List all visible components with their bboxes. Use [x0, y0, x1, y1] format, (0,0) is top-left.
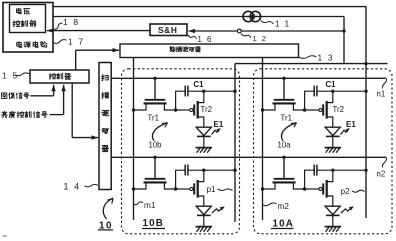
wire: controller to data driver (arrow into data driver left edge) — [76, 49, 119, 51]
junction: storage node on power rail, cell 3 — [364, 90, 367, 93]
svg-text:S&H: S&H — [158, 25, 177, 35]
label: m1 leader — [134, 202, 144, 205]
svg-text:1 7: 1 7 — [68, 37, 85, 47]
junction: Tr2 drain tap, cell 2 — [202, 169, 205, 172]
junction: source on data line, cell 1 — [132, 108, 135, 111]
svg-text:n1: n1 — [377, 90, 386, 99]
junction: supply rail and right vertical — [364, 62, 367, 65]
ground, cell 3 — [325, 147, 341, 149]
transistor Tr2 (drive) cell 1 — [176, 109, 190, 111]
svg-text:Tr1: Tr1 — [281, 114, 292, 123]
label: 亮度控制信号 (brightness control signal) — [2, 111, 7, 117]
transistor p-TFT (drive) cell 4 — [305, 188, 319, 190]
wire: controller to scan driver (arrow into scan driver left edge) — [71, 83, 73, 138]
junction: source on data line, cell 4 — [261, 187, 264, 190]
pointer arrow for 10 — [103, 198, 113, 219]
node 12 (open circle tap) — [237, 29, 241, 33]
junction: storage node on power rail, cell 1 — [233, 90, 236, 93]
block: voltage control unit (inner box) — [10, 5, 46, 33]
junction: storage node on power rail, cell 2 — [233, 169, 236, 172]
wire: right vertical drop of line A — [365, 6, 367, 63]
label: 17 leader — [54, 40, 67, 44]
wire: brightness control signal arrow into controller — [50, 114, 64, 116]
transistor m-TFT (switch) cell 2 — [154, 157, 156, 179]
transistor p-TFT (drive) cell 2 — [176, 188, 190, 190]
junction: source on data line, cell 3 — [261, 108, 264, 111]
svg-text:1 1: 1 1 — [275, 20, 291, 29]
LED E1 cell 1 — [196, 127, 211, 135]
wire: scan line n2 — [111, 156, 386, 158]
transistor Tr1 (switch) cell 3 — [283, 78, 285, 100]
svg-text:Tr2: Tr2 — [333, 105, 344, 114]
wire: data line m1 (column 1) — [133, 58, 135, 220]
label: 数据驱动器 (data driver) — [170, 47, 175, 52]
wire: top supply line A from power box to right side — [53, 6, 366, 8]
label: 11 leader — [261, 20, 274, 23]
svg-text:1 2: 1 2 — [253, 34, 268, 43]
junction: storage node on power rail, cell 4 — [364, 169, 367, 172]
wire: sampled line from tap into S&H (arrow into S&H right edge) — [189, 30, 345, 32]
svg-text:m1: m1 — [144, 201, 156, 210]
junction: line B meets S&H line — [342, 29, 345, 32]
ground, cell 4 — [325, 226, 341, 228]
transistor Tr2 (drive) cell 3 — [305, 109, 319, 111]
label: m2 leader — [263, 203, 277, 206]
svg-text:C1: C1 — [326, 80, 337, 89]
svg-text:Tr1: Tr1 — [148, 114, 159, 123]
label: 12 leader — [241, 33, 251, 37]
label: 13 leader — [299, 56, 317, 59]
junction: Tr2 drain tap, cell 3 — [331, 90, 334, 93]
ground, cell 1 — [196, 147, 212, 149]
scan noise mark bottom left — [3, 235, 7, 237]
capacitor C1 cell 3 — [313, 86, 315, 97]
svg-text:m2: m2 — [278, 202, 290, 211]
junction: gate on scan line, cell 4 — [282, 156, 285, 159]
wire: image signal arrow into controller — [31, 95, 54, 97]
svg-text:10b: 10b — [149, 141, 163, 150]
pointer arrow 10b — [152, 123, 167, 141]
label: n2 leader — [382, 158, 386, 168]
wire: scan line n1 — [111, 77, 386, 79]
label: p1 leader — [218, 189, 233, 191]
junction: gate on scan line, cell 3 — [282, 77, 285, 80]
label: 控制器 (controller) — [49, 73, 56, 79]
svg-text:n2: n2 — [377, 170, 386, 179]
LED (organic EL) cell 4 — [325, 206, 340, 214]
svg-text:E1: E1 — [214, 120, 224, 129]
svg-text:p1: p1 — [207, 185, 217, 194]
svg-text:E1: E1 — [346, 120, 356, 129]
emission arrow of LED, cell 3 — [341, 129, 349, 135]
junction: cap lead / Tr1 drain node, cell 1 — [174, 108, 177, 111]
current source 11 (two overlapped circles with arrow) — [243, 11, 253, 21]
capacitor (storage) cell 2 — [184, 165, 186, 176]
label: 15 leader — [15, 73, 30, 76]
svg-text:1 6: 1 6 — [198, 35, 213, 44]
junction: Tr2 drain tap, cell 4 — [331, 169, 334, 172]
label: p2 leader — [352, 190, 365, 192]
block: scan driver 14 — [99, 63, 111, 190]
emission arrow of LED, cell 2 — [212, 207, 224, 213]
label: 18 leader — [54, 23, 63, 29]
label: 图像信号 (image signal) — [2, 93, 7, 98]
wire: vertical drop of line B to S&H tap — [343, 17, 345, 64]
junction: Tr2 drain tap, cell 1 — [202, 90, 205, 93]
LED E1 cell 3 — [325, 127, 340, 135]
svg-text:10B: 10B — [143, 218, 165, 229]
ground, cell 2 — [196, 226, 212, 228]
wire: supply line B with current source — [53, 16, 344, 18]
svg-text:1 8: 1 8 — [63, 17, 80, 27]
label: 电压 (voltage) — [16, 8, 21, 14]
capacitor (storage) cell 4 — [313, 165, 315, 176]
svg-text:10a: 10a — [278, 141, 292, 150]
junction: gate on scan line, cell 2 — [153, 156, 156, 159]
dashed pixel-group box 10B — [122, 69, 240, 234]
label: 16 leader — [188, 35, 197, 39]
label: 电源电路 (power supply circuit) — [17, 42, 22, 48]
junction: gate on scan line, cell 1 — [153, 77, 156, 80]
junction: cap lead / Tr1 drain node, cell 3 — [303, 108, 306, 111]
emission arrow of LED, cell 4 — [341, 207, 353, 213]
junction: source on data line, cell 2 — [132, 187, 135, 190]
junction: cap lead / Tr1 drain node, cell 2 — [174, 187, 177, 190]
label: 14 leader — [85, 184, 99, 187]
wire: data line m2 (column 2) — [262, 58, 264, 220]
svg-text:1 3: 1 3 — [318, 53, 335, 63]
block: S&H (sample and hold) — [150, 24, 187, 36]
block: controller 15 — [30, 70, 89, 83]
emission arrow of LED, cell 1 — [212, 129, 220, 135]
wire: S&H output to voltage control unit (arrow into inner box) — [47, 30, 150, 32]
pointer arrow 10a — [281, 123, 296, 141]
svg-text:p2: p2 — [341, 187, 351, 196]
wire: horizontal supply rail above panel — [235, 63, 388, 65]
label: 控制部 (control unit) — [13, 20, 20, 26]
block: data line driver 13 — [120, 44, 299, 58]
dashed pixel-group box 10A — [254, 69, 393, 234]
transistor m-TFT (switch) cell 4 — [283, 157, 285, 179]
label: 扫描驱动器 (scan driver, vertical) — [102, 75, 108, 81]
transistor Tr1 (switch) cell 1 — [154, 78, 156, 100]
capacitor C1 cell 1 — [184, 86, 186, 97]
LED (organic EL) cell 2 — [196, 206, 211, 214]
svg-text:1 4: 1 4 — [64, 182, 81, 192]
label: n1 leader — [382, 79, 386, 89]
wire: 10A column power rail p2 (vertical, continues from line A) — [365, 64, 367, 218]
wire: 10B column power rail p1 (vertical) — [234, 64, 236, 222]
svg-text:C1: C1 — [194, 80, 205, 89]
svg-text:Tr2: Tr2 — [201, 105, 212, 114]
junction: cap lead / Tr1 drain node, cell 4 — [303, 187, 306, 190]
block: power supply circuit (outer box) — [3, 3, 53, 53]
